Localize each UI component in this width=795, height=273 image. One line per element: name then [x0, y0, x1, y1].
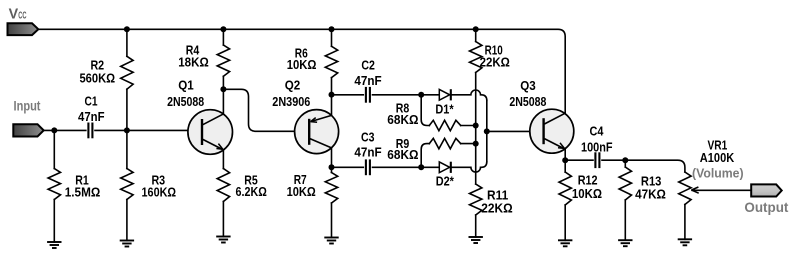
junction input/R1: [51, 127, 57, 133]
svg-text:(Volume): (Volume): [692, 165, 744, 180]
svg-text:560KΩ: 560KΩ: [79, 70, 115, 85]
junction Q2 collector/C3/R7: [329, 164, 335, 170]
VR1 wiper arrow: [692, 187, 752, 193]
svg-text:C3: C3: [361, 130, 375, 145]
svg-text:Output: Output: [744, 199, 788, 215]
resistor R12 10K: [559, 160, 571, 240]
junction Q3 emitter/R12/C4: [562, 157, 568, 163]
ground R12: [558, 240, 572, 246]
wire node C to D2: [421, 166, 439, 168]
svg-text:2N3906: 2N3906: [272, 94, 310, 109]
capacitor C2: [366, 87, 370, 103]
resistor R4 18K: [217, 29, 229, 89]
svg-text:10KΩ: 10KΩ: [572, 186, 602, 201]
svg-text:10KΩ: 10KΩ: [287, 57, 317, 72]
svg-text:V: V: [9, 7, 19, 23]
svg-text:1.5MΩ: 1.5MΩ: [65, 184, 101, 199]
wire C4 to R13 node: [602, 159, 625, 161]
wire C1 to Q1 base: [95, 129, 203, 131]
ground R5: [216, 237, 230, 243]
wire Q1 collector to Q2 base: [223, 89, 310, 131]
ground R7: [324, 238, 338, 244]
Q1 collector wire: [222, 89, 224, 114]
wire D2 to mid vertical with hop: [451, 162, 487, 172]
ground VR1: [678, 239, 692, 245]
Q3 emitter wire down: [564, 149, 566, 160]
resistor R5 6.2K: [217, 150, 229, 237]
wire R13 node to VR1: [625, 160, 685, 172]
svg-text:A100K: A100K: [700, 150, 735, 165]
junction C1/R2/R3: [124, 127, 130, 133]
svg-text:100nF: 100nF: [581, 140, 613, 155]
ground R13: [618, 240, 632, 246]
resistor R8 68K: [429, 120, 475, 130]
Input connector: [13, 124, 43, 136]
wire R6 node to C2: [332, 94, 364, 96]
wire input to C1: [44, 129, 86, 131]
Vcc rail wire: [38, 29, 565, 113]
svg-text:C2: C2: [361, 57, 375, 72]
junction diode mid/Q3 base: [484, 128, 490, 134]
junction rail/R4: [220, 26, 226, 32]
node A junction: [418, 92, 424, 98]
svg-text:C4: C4: [590, 124, 605, 139]
svg-text:Q1: Q1: [178, 78, 194, 93]
node A vertical to R8: [421, 95, 429, 126]
resistor R9 68K: [421, 144, 429, 168]
wire to Q3 base: [487, 130, 545, 132]
resistor R1 1.5M: [48, 130, 60, 242]
node C junction: [418, 164, 424, 170]
diode D1: [439, 89, 451, 100]
svg-text:10KΩ: 10KΩ: [287, 184, 316, 199]
capacitor C3: [366, 159, 370, 175]
resistor R13 47K: [619, 160, 631, 240]
potentiometer VR1 A100K: [679, 172, 691, 239]
svg-text:18KΩ: 18KΩ: [178, 54, 209, 69]
Vcc connector: [8, 23, 39, 35]
diode D2: [439, 162, 451, 173]
svg-text:6.2KΩ: 6.2KΩ: [236, 184, 267, 199]
svg-text:Q2: Q2: [285, 78, 301, 93]
svg-text:47nF: 47nF: [354, 145, 381, 160]
capacitor C4: [595, 152, 599, 168]
svg-text:47nF: 47nF: [354, 73, 381, 88]
resistor R7 10K: [325, 167, 337, 237]
junction R9/divider: [473, 141, 479, 147]
wire C3 to node C: [373, 166, 422, 168]
svg-text:160KΩ: 160KΩ: [142, 184, 177, 199]
svg-text:2N5088: 2N5088: [509, 94, 546, 109]
transistor Q1 2N5088: [188, 110, 233, 155]
resistor R3 160K: [121, 130, 133, 240]
junction rail/R10: [473, 26, 479, 32]
svg-text:CC: CC: [18, 11, 26, 22]
junction rail/R2: [124, 26, 130, 32]
wire emitter to C4: [565, 159, 593, 161]
svg-text:68KΩ: 68KΩ: [387, 112, 418, 127]
divider mid vertical: [475, 126, 477, 185]
svg-text:Input: Input: [14, 99, 41, 114]
svg-text:D2*: D2*: [436, 174, 455, 189]
svg-text:Q3: Q3: [520, 78, 536, 93]
resistor R11 22K: [470, 184, 482, 237]
transistor Q2 2N3906: [295, 110, 339, 154]
Q2 collector wire down: [331, 148, 333, 167]
diode mid vertical: [486, 100, 488, 161]
svg-text:C1: C1: [85, 93, 98, 108]
junction C4/R13/VR1: [622, 157, 628, 163]
svg-text:47KΩ: 47KΩ: [635, 187, 666, 202]
transistor Q3 2N5088: [530, 109, 574, 153]
svg-text:68KΩ: 68KΩ: [387, 147, 418, 162]
junction R8/divider: [473, 123, 479, 129]
capacitor C1: [88, 123, 92, 139]
resistor R6 10K: [325, 29, 337, 94]
ground R11: [469, 237, 483, 243]
Q2 emitter wire up: [331, 95, 333, 116]
svg-text:2N5088: 2N5088: [167, 94, 204, 109]
wire Q2 collector node to C3: [332, 166, 364, 168]
wire D1 to mid vertical with hop: [451, 90, 487, 100]
junction Q1 collector/R4: [220, 86, 226, 92]
ground R1: [47, 242, 61, 248]
Output connector: [751, 184, 782, 196]
svg-text:47nF: 47nF: [78, 109, 105, 124]
wire node A to D1: [421, 94, 439, 96]
svg-text:D1*: D1*: [435, 102, 454, 117]
wire C2 to node A: [373, 94, 422, 96]
svg-text:22KΩ: 22KΩ: [481, 201, 512, 216]
junction R6/C2/Q2 emitter: [329, 92, 335, 98]
ground R3: [120, 241, 134, 247]
resistor R10 22K: [470, 29, 482, 125]
junction rail/R6: [329, 26, 335, 32]
resistor R2 560K: [121, 29, 133, 130]
svg-text:22KΩ: 22KΩ: [480, 55, 510, 70]
